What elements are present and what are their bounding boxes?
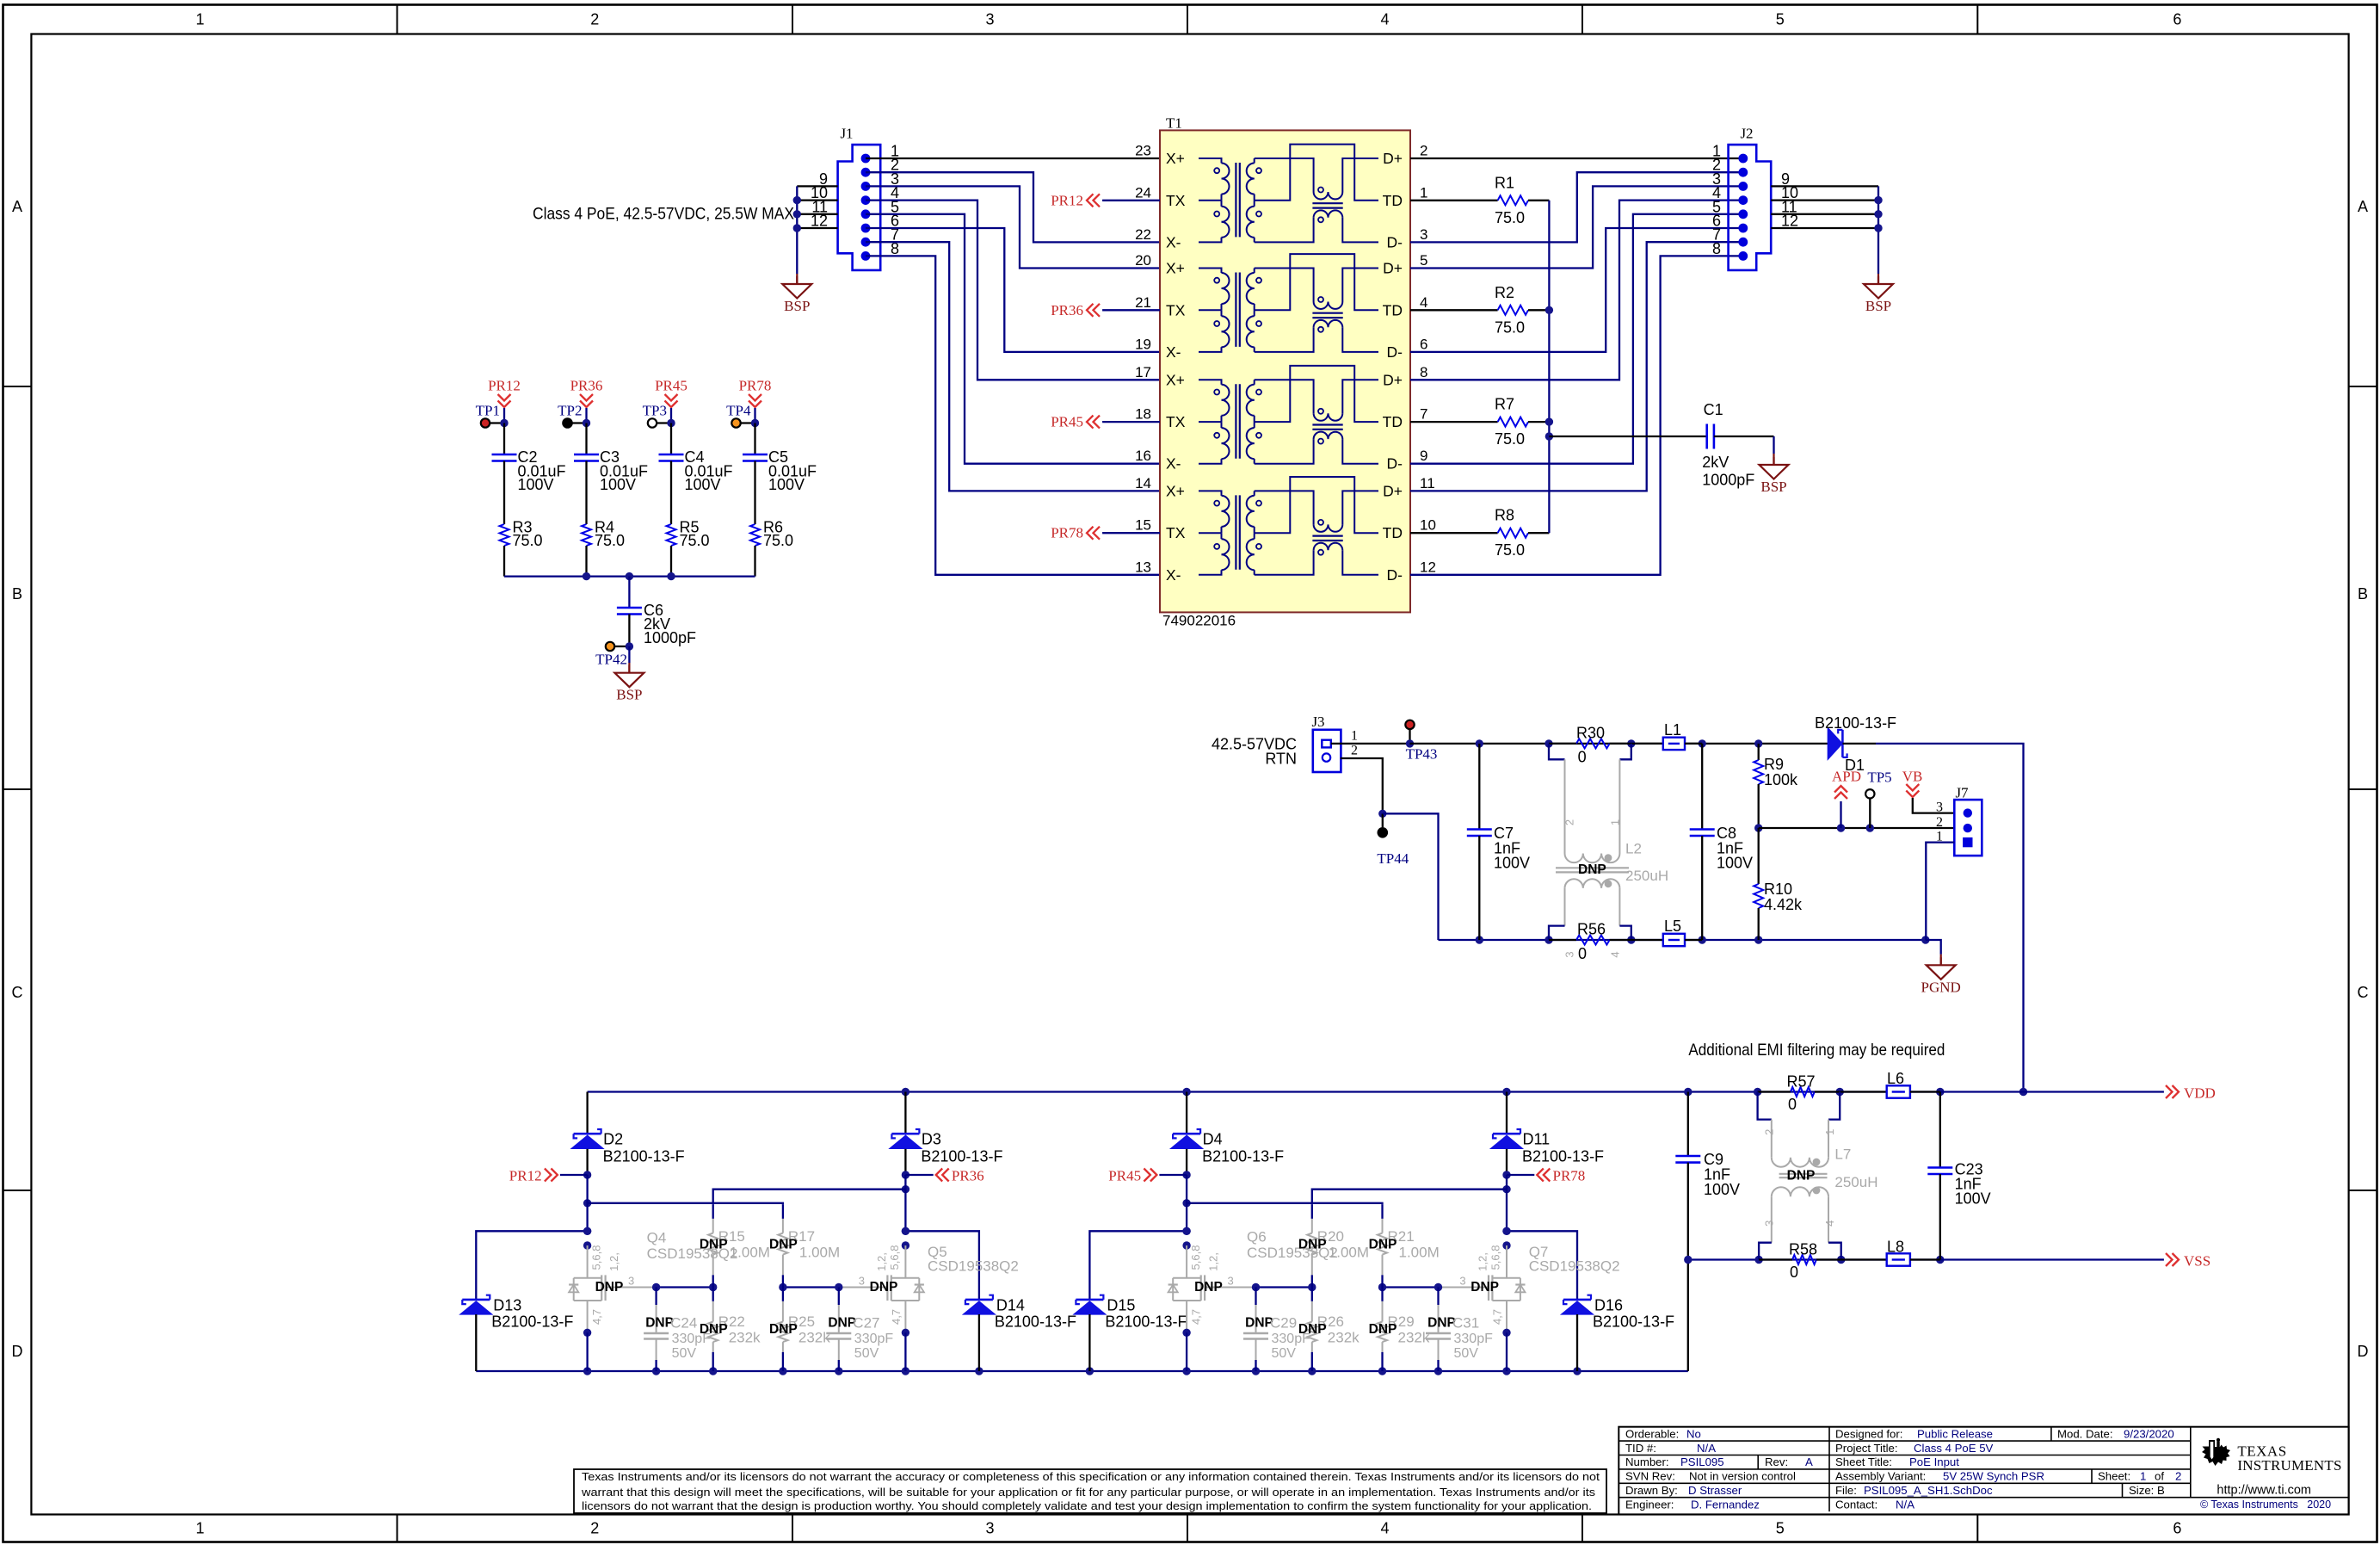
svg-text:B2100-13-F: B2100-13-F <box>1593 1313 1674 1331</box>
svg-text:DNP: DNP <box>1298 1237 1327 1251</box>
svg-text:TX: TX <box>1166 524 1186 541</box>
svg-text:D14: D14 <box>996 1297 1025 1314</box>
svg-text:3: 3 <box>1420 226 1427 243</box>
svg-text:D13: D13 <box>493 1297 521 1314</box>
svg-text:6: 6 <box>1420 336 1427 352</box>
resistor R58 0 <box>1792 1255 1816 1264</box>
svg-text:1,2,: 1,2, <box>1477 1252 1489 1271</box>
svg-text:R8: R8 <box>1495 507 1514 524</box>
svg-text:J2: J2 <box>1740 126 1753 142</box>
svg-text:B2100-13-F: B2100-13-F <box>921 1148 1002 1165</box>
svg-text:DNP: DNP <box>769 1322 798 1337</box>
svg-text:4.42k: 4.42k <box>1764 896 1803 913</box>
svg-text:D+: D+ <box>1383 482 1403 499</box>
svg-text:12: 12 <box>1420 559 1436 575</box>
svg-text:No: No <box>1686 1427 1701 1440</box>
wire D2 column PR to mid <box>586 1175 588 1231</box>
svg-text:10: 10 <box>1420 517 1436 534</box>
svg-text:Contact:: Contact: <box>1835 1498 1877 1511</box>
svg-text:TD: TD <box>1383 413 1403 430</box>
svg-text:B2100-13-F: B2100-13-F <box>1202 1148 1284 1165</box>
svg-text:4,7: 4,7 <box>590 1309 603 1325</box>
svg-text:Size: B: Size: B <box>2129 1484 2165 1497</box>
svg-text:BSP: BSP <box>1865 298 1891 314</box>
svg-text:of: of <box>2155 1470 2164 1483</box>
wire T1 D+3 to J2.4 <box>1410 201 1743 380</box>
wire VDD rail to port <box>1940 1091 2164 1092</box>
connector J7 <box>1954 800 1982 856</box>
svg-text:1,2,: 1,2, <box>875 1252 888 1271</box>
diode D2 B2100-13-F <box>586 1092 588 1134</box>
svg-text:L5: L5 <box>1664 918 1681 935</box>
capacitor C6 2kV 1000pF <box>628 577 630 608</box>
capacitor C5 0.01uF 100V <box>754 423 755 455</box>
svg-text:C24: C24 <box>670 1315 697 1332</box>
svg-text:4,7: 4,7 <box>890 1309 903 1325</box>
port PR78 at diode D11 <box>1502 1171 1510 1178</box>
svg-text:6: 6 <box>2173 11 2181 28</box>
wire TP44 to bottom rail <box>1383 813 1439 940</box>
transistor Q5 CSD19538Q2 DNP <box>902 1227 909 1235</box>
wire T1 D-3 to J2.5 <box>1410 214 1743 464</box>
svg-text:232k: 232k <box>1398 1329 1430 1345</box>
svg-text:2: 2 <box>1763 1129 1776 1135</box>
svg-text:1: 1 <box>2140 1470 2146 1483</box>
svg-text:warrant that this design will: warrant that this design will meet the s… <box>581 1486 1596 1499</box>
svg-text:TP2: TP2 <box>558 403 582 419</box>
svg-text:75.0: 75.0 <box>513 532 543 549</box>
svg-text:Additional EMI filtering may b: Additional EMI filtering may be required <box>1688 1041 1945 1060</box>
svg-text:3: 3 <box>1459 1275 1465 1288</box>
T1 right stub row D+ <box>1409 267 1411 269</box>
resistor R17 1.00M DNP <box>782 1204 784 1219</box>
svg-text:X-: X- <box>1166 566 1181 584</box>
svg-text:DNP: DNP <box>700 1237 728 1251</box>
wire T1 D+4 to J2.7 <box>1410 242 1743 491</box>
svg-text:75.0: 75.0 <box>763 532 793 549</box>
svg-text:1: 1 <box>1609 819 1622 825</box>
svg-text:21: 21 <box>1135 294 1151 311</box>
svg-text:9: 9 <box>1420 448 1427 464</box>
svg-text:13: 13 <box>1135 559 1151 575</box>
wire D11 column PR to mid <box>1506 1175 1508 1231</box>
wire D4 to R21 top <box>1182 1199 1190 1207</box>
test point TP2 <box>568 422 587 423</box>
svg-text:250uH: 250uH <box>1834 1174 1877 1190</box>
svg-text:TD: TD <box>1383 192 1403 209</box>
svg-text:Drawn By:: Drawn By: <box>1625 1484 1678 1497</box>
svg-text:2: 2 <box>1936 815 1943 830</box>
wire TP network bottom bus <box>504 575 755 577</box>
svg-text:PR12: PR12 <box>509 1168 542 1184</box>
svg-text:R2: R2 <box>1495 284 1514 301</box>
svg-text:PR12: PR12 <box>1051 192 1083 208</box>
svg-text:PR78: PR78 <box>1553 1168 1586 1184</box>
capacitor C1 2kV 1000pF <box>1549 436 1706 437</box>
svg-text:22: 22 <box>1135 226 1151 243</box>
svg-text:N/A: N/A <box>1896 1498 1914 1511</box>
svg-text:Q6: Q6 <box>1247 1229 1267 1245</box>
resistor R10 4.42k <box>1754 824 1762 831</box>
svg-text:APD: APD <box>1832 769 1861 785</box>
svg-text:CSD19538Q2: CSD19538Q2 <box>928 1258 1019 1274</box>
svg-text:SVN Rev:: SVN Rev: <box>1625 1470 1675 1483</box>
wire D11 to R20 top <box>1502 1185 1510 1193</box>
svg-text:0: 0 <box>1578 749 1587 766</box>
svg-text:9/23/2020: 9/23/2020 <box>2124 1427 2174 1440</box>
svg-text:X-: X- <box>1166 233 1181 250</box>
T1 right stub row TD <box>1409 421 1411 423</box>
svg-text:19: 19 <box>1135 336 1151 352</box>
svg-text:Class 4 PoE, 42.5-57VDC, 25.5W: Class 4 PoE, 42.5-57VDC, 25.5W MAX <box>533 206 794 224</box>
resistor R30 0 <box>1576 739 1610 748</box>
diode D15 B2100-13-F <box>1074 1301 1105 1314</box>
resistor R2 75.0 <box>1410 309 1498 311</box>
svg-text:D-: D- <box>1387 566 1403 584</box>
svg-text:D2: D2 <box>603 1131 623 1148</box>
svg-text:D4: D4 <box>1203 1131 1223 1148</box>
svg-text:B2100-13-F: B2100-13-F <box>1815 714 1896 732</box>
svg-text:D16: D16 <box>1594 1297 1623 1314</box>
svg-text:8: 8 <box>1420 364 1427 380</box>
svg-text:100V: 100V <box>1955 1190 1991 1208</box>
wire J3.2 to TP44 node <box>1341 758 1383 813</box>
diode D14 B2100-13-F <box>964 1301 995 1314</box>
resistor R29 232k DNP <box>1381 1288 1383 1301</box>
transformer T1 body <box>1160 130 1410 612</box>
svg-text:N/A: N/A <box>1697 1442 1716 1455</box>
svg-text:R56: R56 <box>1577 921 1606 938</box>
svg-text:D Strasser: D Strasser <box>1688 1484 1742 1497</box>
svg-text:5,6,8: 5,6,8 <box>1189 1245 1202 1270</box>
svg-text:VSS: VSS <box>2184 1253 2210 1270</box>
svg-text:2: 2 <box>590 11 599 28</box>
svg-text:18: 18 <box>1135 406 1151 423</box>
inductor L5 <box>1631 939 1663 941</box>
svg-text:3: 3 <box>1563 951 1576 957</box>
svg-text:75.0: 75.0 <box>1495 430 1525 448</box>
svg-text:PR45: PR45 <box>655 378 687 394</box>
wire T1 D+2 to J2.3 <box>1410 186 1743 268</box>
svg-text:T1: T1 <box>1166 115 1182 132</box>
svg-text:3: 3 <box>985 11 994 28</box>
svg-text:DNP: DNP <box>1787 1168 1816 1183</box>
svg-text:Assembly Variant:: Assembly Variant: <box>1835 1470 1926 1483</box>
svg-text:232k: 232k <box>1328 1329 1360 1345</box>
ground BSP under J1 <box>796 274 798 284</box>
wire T1 D-1 to J2.2 <box>1410 172 1743 242</box>
capacitor C31 330pF 50V DNP <box>1437 1288 1439 1306</box>
resistor R6 75.0 <box>754 461 755 525</box>
port PR45 at diode D4 <box>1182 1171 1190 1178</box>
svg-text:0: 0 <box>1788 1096 1797 1113</box>
svg-text:DNP: DNP <box>1471 1280 1499 1295</box>
svg-text:DNP: DNP <box>645 1316 674 1331</box>
svg-text:12: 12 <box>811 213 828 230</box>
svg-text:RTN: RTN <box>1265 751 1297 768</box>
T1 right stub row TD <box>1409 532 1411 534</box>
T1 right stub row TD <box>1409 309 1411 311</box>
svg-text:11: 11 <box>1420 475 1435 491</box>
svg-text:C31: C31 <box>1452 1315 1479 1332</box>
svg-text:INSTRUMENTS: INSTRUMENTS <box>2237 1457 2341 1474</box>
disclaimer text box <box>574 1469 1606 1513</box>
svg-text:7: 7 <box>1420 406 1427 423</box>
diode D11 B2100-13-F <box>1506 1092 1508 1134</box>
capacitor C2 0.01uF 100V <box>503 423 505 455</box>
svg-text:100k: 100k <box>1764 771 1798 788</box>
svg-text:5V 25W Synch PSR: 5V 25W Synch PSR <box>1943 1470 2044 1483</box>
test point TP44 <box>1382 813 1384 827</box>
svg-text:1000pF: 1000pF <box>1702 472 1754 489</box>
svg-text:100V: 100V <box>1717 855 1753 872</box>
test point TP4 <box>737 422 755 423</box>
svg-text:BSP: BSP <box>616 687 642 703</box>
svg-text:1.00M: 1.00M <box>1329 1244 1369 1260</box>
svg-text:Q4: Q4 <box>647 1230 667 1246</box>
connector J2 <box>1729 145 1772 270</box>
svg-text:23: 23 <box>1135 143 1151 159</box>
diode D1 B2100-13-F <box>1828 728 1842 759</box>
svg-text:1: 1 <box>1351 729 1358 744</box>
J2 pins 9-12 wires <box>1771 185 1878 187</box>
svg-text:TP43: TP43 <box>1406 746 1438 763</box>
svg-text:75.0: 75.0 <box>1495 318 1525 336</box>
svg-text:X-: X- <box>1166 343 1181 361</box>
svg-text:Project Title:: Project Title: <box>1835 1442 1898 1455</box>
svg-text:100V: 100V <box>1704 1181 1740 1198</box>
svg-text:PR36: PR36 <box>952 1168 984 1184</box>
svg-text:2: 2 <box>1420 143 1427 159</box>
wire T1 D+2 to J2.1 <box>1410 158 1743 159</box>
svg-text:5,6,8: 5,6,8 <box>888 1245 901 1270</box>
svg-text:4,7: 4,7 <box>1190 1309 1203 1325</box>
svg-text:X+: X+ <box>1166 371 1185 388</box>
T1 right stub row TD <box>1409 200 1411 201</box>
J1 pins 9-12 wires to BSP chain <box>797 185 837 187</box>
wire Q6 gate line <box>1256 1286 1312 1288</box>
svg-text:100V: 100V <box>685 476 721 493</box>
svg-text:X-: X- <box>1166 455 1181 473</box>
svg-text:TX: TX <box>1166 192 1186 209</box>
svg-text:PSIL095_A_SH1.SchDoc: PSIL095_A_SH1.SchDoc <box>1864 1484 1993 1497</box>
svg-text:TX: TX <box>1166 413 1186 430</box>
svg-text:TP5: TP5 <box>1867 769 1891 786</box>
svg-text:D15: D15 <box>1107 1297 1135 1314</box>
wire J3.1 to top rail <box>1331 743 1410 745</box>
svg-text:232k: 232k <box>798 1329 830 1345</box>
svg-text:Texas Instruments and/or its l: Texas Instruments and/or its licensors d… <box>582 1470 1600 1483</box>
svg-text:J3: J3 <box>1311 714 1324 730</box>
svg-text:4: 4 <box>1380 11 1389 28</box>
svg-text:3: 3 <box>1763 1221 1776 1227</box>
svg-text:Public Release: Public Release <box>1917 1427 1993 1440</box>
test point TP43 <box>1405 720 1414 729</box>
svg-text:A: A <box>2358 198 2368 215</box>
connector J3 <box>1313 730 1341 772</box>
wire Q7 gate line <box>1383 1286 1439 1288</box>
resistor R7 75.0 <box>1410 421 1498 423</box>
wire J1.6 to T1 row X- <box>866 228 1160 352</box>
port VSS <box>2166 1253 2173 1266</box>
svg-text:B2100-13-F: B2100-13-F <box>995 1313 1076 1331</box>
port PR12 at diode D2 <box>583 1171 591 1178</box>
svg-text:0: 0 <box>1578 945 1587 962</box>
T1 right stub row D- <box>1409 463 1411 465</box>
svg-text:B: B <box>2358 585 2368 603</box>
T1 right stub row D- <box>1409 574 1411 576</box>
capacitor C27 330pF 50V DNP <box>838 1288 840 1306</box>
svg-text:Engineer:: Engineer: <box>1625 1498 1674 1511</box>
svg-text:C29: C29 <box>1270 1315 1297 1332</box>
resistor R57 0 <box>1791 1087 1815 1097</box>
svg-text:3: 3 <box>985 1520 994 1537</box>
wire J1.7 to T1 row X+ <box>866 242 1160 491</box>
svg-text:DNP: DNP <box>1369 1237 1397 1251</box>
ground BSP under J2 <box>1877 274 1879 284</box>
svg-text:DNP: DNP <box>1369 1322 1397 1337</box>
svg-text:D-: D- <box>1387 455 1403 473</box>
svg-text:330pF: 330pF <box>672 1332 712 1346</box>
svg-text:D-: D- <box>1387 233 1403 250</box>
svg-text:20: 20 <box>1135 252 1151 269</box>
test point TP1 <box>485 422 504 423</box>
svg-text:DNP: DNP <box>870 1280 898 1295</box>
svg-text:TX: TX <box>1166 301 1186 318</box>
T1 right stub row D+ <box>1409 158 1411 159</box>
svg-text:L1: L1 <box>1664 721 1681 739</box>
wire D2 to R17 top <box>583 1199 591 1207</box>
wire D15 top link <box>1089 1231 1187 1300</box>
diode D16 B2100-13-F <box>1562 1301 1593 1314</box>
svg-text:L6: L6 <box>1887 1070 1904 1087</box>
svg-text:1000pF: 1000pF <box>644 629 696 646</box>
diode D4 B2100-13-F <box>1186 1092 1187 1134</box>
wire VSS rail <box>1688 1258 1940 1260</box>
svg-text:CSD19538Q2: CSD19538Q2 <box>1529 1258 1620 1274</box>
svg-text:licensors do not warrant that: licensors do not warrant that the design… <box>582 1499 1592 1512</box>
wire J1.8 to T1 row X- <box>866 256 1160 574</box>
capacitor C23 1nF 100V <box>1939 1092 1941 1168</box>
svg-text:75.0: 75.0 <box>595 532 625 549</box>
connector J1 <box>838 145 881 270</box>
transistor Q6 CSD19538Q2 DNP <box>1182 1227 1190 1235</box>
wire D3 to R15 top <box>902 1185 909 1193</box>
svg-text:4: 4 <box>1609 951 1622 957</box>
wire R9/R10 node to J7.2 <box>1759 827 1955 829</box>
svg-text:L7: L7 <box>1834 1146 1851 1163</box>
inductor L8 <box>1841 1258 1887 1260</box>
wire J1.2 to T1 row X- <box>866 172 1160 242</box>
svg-text:R7: R7 <box>1495 396 1514 413</box>
svg-text:A: A <box>12 198 22 215</box>
capacitor C8 1nF 100V <box>1701 744 1703 830</box>
svg-text:4: 4 <box>1823 1221 1836 1227</box>
svg-text:5,6,8: 5,6,8 <box>590 1245 603 1270</box>
svg-text:C27: C27 <box>853 1315 879 1332</box>
capacitor C3 0.01uF 100V <box>585 423 587 455</box>
svg-text:L8: L8 <box>1887 1239 1904 1256</box>
svg-text:R1: R1 <box>1495 174 1514 191</box>
svg-text:File:: File: <box>1835 1484 1857 1497</box>
svg-text:R10: R10 <box>1764 881 1792 898</box>
svg-text:749022016: 749022016 <box>1162 613 1236 629</box>
svg-text:R30: R30 <box>1576 725 1605 742</box>
test point TP3 <box>652 422 671 423</box>
wire VDD top rail <box>588 1091 1940 1092</box>
wire J7.1 to bottom rail <box>1926 843 1954 940</box>
svg-text:4,7: 4,7 <box>1491 1309 1504 1325</box>
svg-text:5: 5 <box>1420 252 1427 269</box>
svg-text:1: 1 <box>1823 1129 1836 1135</box>
svg-text:100V: 100V <box>518 476 554 493</box>
resistor R4 75.0 <box>585 461 587 525</box>
wire bottom diode rail <box>476 1370 1688 1372</box>
svg-text:PSIL095: PSIL095 <box>1680 1455 1724 1468</box>
svg-text:DNP: DNP <box>828 1316 856 1331</box>
svg-text:TP4: TP4 <box>726 403 751 419</box>
svg-text:L2: L2 <box>1625 841 1642 857</box>
wire D4 column PR to mid <box>1186 1175 1187 1231</box>
svg-text:VB: VB <box>1902 769 1923 785</box>
svg-text:A: A <box>1805 1455 1813 1468</box>
inductor L1 <box>1631 743 1663 745</box>
svg-text:TP42: TP42 <box>595 652 627 668</box>
resistor R5 75.0 <box>670 461 672 525</box>
resistor R56 0 <box>1576 936 1610 945</box>
svg-text:D+: D+ <box>1383 371 1403 388</box>
svg-text:C: C <box>2358 984 2369 1001</box>
svg-text:Sheet:: Sheet: <box>2098 1470 2130 1483</box>
svg-text:X+: X+ <box>1166 260 1185 277</box>
resistor R15 1.00M DNP <box>712 1204 714 1219</box>
svg-text:330pF: 330pF <box>1454 1332 1494 1346</box>
svg-text:TID #:: TID #: <box>1625 1442 1656 1455</box>
svg-text:3: 3 <box>1936 800 1943 814</box>
wire T1 D-4 to J2.8 <box>1410 256 1743 574</box>
capacitor C7 1nF 100V <box>1478 744 1480 830</box>
svg-text:Sheet Title:: Sheet Title: <box>1835 1455 1892 1468</box>
svg-text:PR78: PR78 <box>1051 525 1083 541</box>
svg-text:Number:: Number: <box>1625 1455 1669 1468</box>
wire J1.4 to T1 row X+ <box>866 201 1160 380</box>
svg-text:DNP: DNP <box>1194 1280 1223 1295</box>
wire J1.5 to T1 row X- <box>866 214 1160 464</box>
port VDD <box>2166 1085 2173 1098</box>
svg-text:DNP: DNP <box>769 1237 798 1251</box>
svg-text:PR45: PR45 <box>1051 414 1083 430</box>
T1 right stub row D+ <box>1409 490 1411 491</box>
port PR12 at T1 <box>1102 200 1160 201</box>
svg-text:PR45: PR45 <box>1108 1168 1141 1184</box>
svg-text:5: 5 <box>1776 1520 1785 1537</box>
svg-text:1.00M: 1.00M <box>799 1244 840 1260</box>
svg-text:B2100-13-F: B2100-13-F <box>491 1313 573 1331</box>
svg-text:75.0: 75.0 <box>1495 209 1525 226</box>
transistor Q7 CSD19538Q2 DNP <box>1502 1227 1510 1235</box>
svg-text:2: 2 <box>1351 744 1358 758</box>
svg-text:PR12: PR12 <box>488 378 521 394</box>
wire top rail J3 to D1 <box>1410 743 1828 745</box>
svg-text:PR78: PR78 <box>739 378 772 394</box>
resistor R9 100k <box>1758 744 1760 760</box>
capacitor C29 330pF 50V DNP <box>1255 1288 1256 1306</box>
svg-text:B2100-13-F: B2100-13-F <box>603 1148 685 1165</box>
port PR36 at diode D3 <box>902 1171 909 1178</box>
svg-text:1.00M: 1.00M <box>1399 1244 1440 1260</box>
svg-text:4: 4 <box>1380 1520 1389 1537</box>
svg-text:PR36: PR36 <box>570 378 603 394</box>
